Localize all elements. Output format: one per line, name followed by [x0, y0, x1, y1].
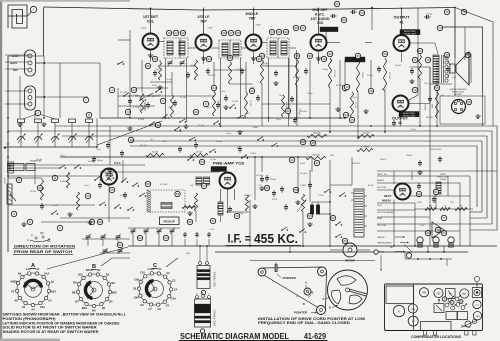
svg-text:.015μf: .015μf: [410, 129, 416, 131]
junction: [436, 125, 438, 127]
svg-text:28: 28: [236, 31, 240, 35]
svg-text:100,000: 100,000: [300, 111, 308, 113]
junction: [318, 8, 320, 10]
callout 10: [37, 185, 42, 190]
value label: [262, 65, 269, 67]
svg-text:250,000: 250,000: [208, 75, 216, 77]
label phono only preamp: [211, 167, 227, 172]
junction: [96, 146, 98, 148]
resistor: [356, 60, 359, 92]
switch lever: [51, 211, 58, 215]
svg-text:6,800: 6,800: [152, 85, 158, 87]
wire: [109, 126, 111, 165]
svg-text:A3A: A3A: [40, 305, 45, 309]
wire: [414, 203, 416, 246]
wire: [470, 217, 487, 219]
svg-text:70Ω: 70Ω: [432, 202, 436, 204]
wire: [311, 157, 313, 172]
value label: [381, 89, 387, 91]
svg-text:WHITE: WHITE: [406, 155, 413, 157]
svg-text:A.V.C.: A.V.C.: [315, 12, 325, 16]
svg-text:70,000: 70,000: [395, 65, 402, 67]
junction: [7, 164, 9, 166]
svg-text:A9: A9: [18, 272, 22, 276]
callout 45: [310, 140, 315, 145]
chassis callout i: [442, 297, 463, 305]
value label: [190, 185, 195, 187]
svg-text:22: 22: [146, 64, 150, 68]
tone cap: [280, 186, 284, 193]
callout 61: [117, 242, 122, 247]
callout 35: [294, 53, 299, 58]
svg-text:71: 71: [413, 58, 417, 62]
svg-text:.004μf: .004μf: [176, 131, 182, 133]
capacitor: [178, 146, 182, 153]
wire: [43, 56, 45, 118]
svg-text:39: 39: [286, 109, 290, 113]
wire: [145, 171, 219, 173]
wire: [122, 160, 124, 182]
junction: [329, 213, 331, 215]
svg-text:100μμf: 100μμf: [322, 69, 329, 71]
wire: [470, 223, 492, 225]
callout 29: [227, 55, 232, 60]
junction: [7, 175, 9, 177]
callout 57: [201, 183, 206, 188]
bus line B7: [60, 156, 312, 158]
svg-text:FROM REAR OF SWITCH: FROM REAR OF SWITCH: [14, 250, 73, 254]
wire: [351, 157, 353, 185]
junction: [427, 251, 429, 253]
wire: [253, 51, 255, 65]
value label: [226, 133, 231, 135]
electrolytic caps left: [3, 162, 14, 184]
compensator locations caption: [411, 335, 461, 339]
value label: [236, 69, 243, 71]
svg-text:98: 98: [467, 100, 471, 104]
ground: [157, 85, 162, 90]
resistor 680,000: [307, 132, 327, 137]
svg-text:79: 79: [436, 228, 440, 232]
value label: [221, 91, 226, 93]
callout 93: [425, 230, 430, 235]
svg-text:.0007: .0007: [279, 95, 285, 97]
svg-text:470,000: 470,000: [333, 70, 335, 78]
junction: [227, 211, 229, 213]
svg-text:B3: B3: [112, 281, 116, 285]
chassis rect B: [458, 312, 468, 320]
svg-text:B4: B4: [109, 300, 113, 304]
resistor: [281, 95, 284, 117]
value label: [285, 102, 287, 110]
chassis legs: [424, 331, 477, 336]
svg-text:14,000: 14,000: [232, 101, 239, 103]
wire: [8, 204, 95, 206]
junction: [253, 9, 255, 11]
svg-text:70,000: 70,000: [236, 69, 243, 71]
svg-text:C9: C9: [133, 287, 137, 291]
label audio freq phono only V5: [400, 30, 420, 36]
capacitor: [290, 96, 294, 103]
svg-text:26: 26: [222, 31, 226, 35]
coil wires: [200, 246, 207, 258]
chassis tube 7B7b: [460, 289, 469, 298]
svg-text:ANT. TRANS.: ANT. TRANS.: [213, 271, 217, 287]
svg-text:RED: RED: [330, 155, 335, 157]
wire: [365, 42, 372, 44]
capacitor: [272, 190, 276, 197]
value label: [150, 139, 154, 141]
value label: [263, 63, 270, 65]
resistor 250,000: [358, 132, 374, 137]
wire: [443, 246, 445, 252]
svg-text:180,000: 180,000: [256, 175, 264, 177]
resistor: [140, 93, 145, 113]
svg-text:330μμf: 330μμf: [97, 160, 103, 162]
bus line B5: [130, 141, 482, 212]
svg-text:B3A: B3A: [112, 291, 117, 295]
junction: [357, 137, 359, 139]
switch lever: [123, 93, 130, 97]
capacitor: [446, 66, 450, 73]
svg-text:RECT: RECT: [384, 194, 392, 198]
switch lever: [209, 149, 216, 153]
svg-text:YELLOW: YELLOW: [377, 187, 386, 189]
wire: [357, 92, 359, 138]
switch wafer B: [72, 264, 117, 312]
wire: [254, 157, 256, 200]
ground: [295, 200, 300, 205]
value label: [146, 157, 153, 159]
osc cluster wires: [100, 63, 168, 118]
svg-text:POINTER: POINTER: [294, 311, 308, 315]
svg-text:A6: A6: [14, 299, 18, 303]
wire: [289, 47, 296, 49]
svg-text:470,000: 470,000: [285, 102, 287, 110]
svg-text:20: 20: [153, 57, 157, 61]
svg-text:15,000: 15,000: [166, 79, 173, 81]
resistor 250,000: [306, 154, 326, 159]
wire: [436, 60, 438, 92]
svg-text:B2: B2: [106, 273, 110, 277]
connector socket P2: [5, 86, 36, 110]
cam labels: [323, 297, 339, 310]
trimmer row left A: [82, 234, 130, 246]
wire lamp: [404, 244, 412, 252]
value label: [452, 77, 456, 79]
callout 74: [437, 25, 442, 30]
svg-text:91: 91: [434, 190, 438, 194]
ground: [21, 222, 26, 227]
svg-text:O.S.C.: O.S.C.: [114, 162, 122, 165]
svg-text:2ND I.F.: 2ND I.F.: [245, 12, 258, 16]
svg-text:15: 15: [110, 188, 114, 192]
svg-text:B: B: [329, 306, 331, 310]
svg-text:2ND DET: 2ND DET: [312, 8, 328, 12]
svg-text:7B6: 7B6: [422, 293, 427, 295]
svg-text:RED: RED: [186, 253, 191, 255]
junction: [414, 245, 416, 247]
resistor 75: [455, 205, 467, 210]
resistor: [158, 62, 161, 80]
svg-text:A5: A5: [22, 305, 26, 309]
wire h1: [160, 65, 196, 67]
svg-text:FREQUENCY END OF DIAL. G: FREQUENCY END OF DIAL. GANG CLOSED: [258, 321, 351, 325]
pulley idler: [304, 288, 311, 295]
resistor: [40, 180, 43, 200]
wire: [470, 211, 482, 213]
chassis bottom rect: [421, 322, 452, 331]
wire: [159, 60, 161, 62]
IF transformer Z1: [164, 38, 188, 58]
callout 54: [175, 159, 205, 196]
ground: [251, 56, 256, 61]
svg-text:250,000: 250,000: [120, 92, 128, 94]
svg-text:C: C: [297, 294, 299, 298]
left bus vertical: [7, 56, 9, 252]
wire: [227, 189, 229, 213]
svg-text:500,000: 500,000: [244, 195, 252, 197]
wire: [344, 60, 346, 92]
wire: [377, 230, 460, 232]
note switches line2: [3, 317, 56, 321]
wire: [141, 60, 143, 92]
callout 48: [368, 88, 373, 93]
callout 14b: [41, 219, 95, 224]
svg-text:2 MEG: 2 MEG: [60, 181, 67, 183]
wire V4 plate: [318, 8, 320, 35]
svg-text:C3: C3: [172, 278, 176, 282]
svg-text:B5: B5: [102, 306, 106, 310]
scan edge bottom-left: [0, 339, 60, 341]
wire: [482, 93, 484, 126]
wire: [241, 47, 246, 49]
svg-text:POSITION (PHONOGRAPH): POSITION (PHONOGRAPH): [3, 317, 56, 321]
wire: [8, 164, 145, 166]
ground: [273, 81, 278, 86]
svg-text:PHONO ONLY: PHONO ONLY: [404, 33, 417, 35]
callout 13: [128, 137, 133, 142]
callout 76: [444, 9, 449, 14]
svg-text:BLUE: BLUE: [368, 185, 374, 187]
switch lever: [121, 178, 128, 183]
svg-text:10: 10: [38, 186, 42, 190]
tuning gang trimmers: [18, 119, 93, 147]
callout 90: [249, 88, 254, 93]
callout 30: [259, 53, 264, 58]
wire V5 plate: [401, 8, 403, 36]
drive cord right: [326, 272, 327, 311]
wire: [329, 88, 331, 132]
svg-text:.09μf: .09μf: [168, 107, 173, 109]
wire: [41, 178, 43, 180]
svg-text:10,000: 10,000: [196, 151, 203, 153]
wire h4: [135, 95, 215, 97]
wire: [325, 30, 327, 43]
svg-text:250,000: 250,000: [362, 132, 370, 134]
rotation arrow sketch: [27, 231, 51, 243]
svg-text:62: 62: [138, 236, 142, 240]
callouts near Z3: [269, 29, 288, 34]
svg-text:A7: A7: [11, 289, 15, 293]
svg-text:41-629: 41-629: [304, 332, 327, 341]
wire top-right bend: [454, 8, 456, 59]
junction: [7, 156, 9, 158]
junction: [297, 156, 299, 158]
wire IFT lead: [240, 58, 242, 118]
svg-text:210V: 210V: [207, 28, 213, 30]
svg-text:2.2 MEG: 2.2 MEG: [133, 107, 141, 109]
svg-text:I.F. =: I.F. =: [228, 234, 252, 246]
svg-text:BLACK-RED: BLACK-RED: [430, 148, 442, 151]
bus low 1: [128, 245, 497, 247]
resistor: [228, 62, 231, 84]
svg-text:10μf: 10μf: [452, 77, 456, 79]
svg-text:.09μf: .09μf: [226, 133, 231, 135]
value label: [450, 202, 454, 204]
callout 60: [97, 219, 102, 224]
svg-text:47: 47: [315, 161, 319, 165]
svg-text:72: 72: [413, 88, 417, 92]
value label: [168, 107, 173, 109]
svg-text:680,000: 680,000: [313, 132, 321, 134]
wire: [100, 171, 145, 173]
pickup shield hatch: [147, 191, 151, 213]
chassis tube 7B6: [419, 288, 428, 297]
value label: [162, 141, 167, 143]
switch lever: [174, 127, 181, 131]
wire v6 grid: [409, 8, 418, 101]
junction: [217, 206, 219, 208]
svg-text:1800Ω: 1800Ω: [440, 179, 446, 181]
svg-text:.006μf: .006μf: [238, 213, 244, 215]
svg-text:C8: C8: [140, 303, 144, 307]
resistor: [170, 95, 173, 117]
value label: [367, 75, 374, 77]
value label: [60, 181, 67, 183]
wire speaker: [448, 60, 450, 78]
wire: [329, 160, 331, 180]
wire: [436, 90, 438, 126]
svg-text:POINTER: POINTER: [283, 276, 297, 280]
junction: [370, 125, 372, 127]
note direction of rotation: [13, 245, 76, 255]
value label: [246, 113, 251, 115]
svg-text:45: 45: [311, 141, 315, 145]
value label: [198, 125, 205, 127]
svg-text:1ST DET: 1ST DET: [143, 15, 159, 19]
svg-text:A1: A1: [36, 267, 40, 271]
callouts near V4: [293, 25, 305, 30]
junction: [7, 117, 9, 119]
junction: [371, 7, 373, 9]
junction: [401, 7, 403, 9]
socket circle: [452, 100, 466, 114]
wire: [19, 76, 21, 118]
wire antenna to bus: [16, 14, 18, 16]
svg-text:50,000: 50,000: [146, 157, 153, 159]
wire: [289, 246, 291, 252]
wire: [277, 38, 279, 58]
resistor: [194, 60, 197, 80]
svg-text:.05μf: .05μf: [276, 119, 281, 121]
wire: [377, 182, 460, 184]
oscillator transformer: [195, 293, 217, 334]
switch lever: [324, 189, 331, 193]
svg-text:41: 41: [398, 121, 402, 125]
label black vert: [424, 103, 427, 110]
svg-text:52: 52: [418, 49, 422, 53]
svg-text:470,000: 470,000: [160, 184, 168, 186]
svg-text:51,000: 51,000: [180, 97, 187, 99]
svg-text:94: 94: [442, 231, 446, 235]
switch lever: [147, 93, 154, 97]
switch lever: [241, 155, 248, 159]
value label: [368, 185, 374, 187]
switch lever: [107, 175, 114, 179]
callout 24: [211, 85, 216, 90]
svg-text:C8A: C8A: [134, 296, 139, 300]
svg-text:12: 12: [86, 194, 90, 198]
capacitor: [98, 182, 102, 189]
svg-text:.01μf: .01μf: [352, 97, 357, 99]
wire: [262, 42, 268, 44]
callout 9: [16, 177, 21, 182]
ground: [127, 126, 132, 131]
callout 44: [342, 85, 347, 90]
callout 94: [441, 230, 446, 235]
callout 59: [307, 213, 312, 218]
wire: [261, 157, 263, 172]
svg-text:A2A: A2A: [51, 290, 56, 294]
wire: [370, 60, 372, 94]
wire: [296, 50, 298, 118]
junction: [344, 117, 346, 119]
junction: [339, 117, 341, 119]
label red vert: [432, 103, 434, 108]
value label: [430, 148, 442, 151]
padder caps 2: [183, 232, 210, 246]
junction: [289, 251, 291, 253]
callout 31: [256, 56, 261, 61]
svg-text:C5: C5: [166, 303, 170, 307]
svg-text:100 μf: 100 μf: [270, 179, 277, 181]
svg-text:B1: B1: [97, 268, 101, 272]
bus line B4: [62, 136, 487, 218]
svg-text:22,000: 22,000: [249, 100, 251, 107]
value label: [279, 95, 285, 97]
svg-text:24: 24: [212, 86, 216, 90]
svg-text:18: 18: [167, 31, 171, 35]
ground: [201, 56, 206, 61]
wire: [318, 51, 320, 65]
wire: [60, 217, 130, 219]
callout 40: [327, 51, 332, 56]
wire: [179, 38, 181, 58]
capacitor: [106, 142, 110, 149]
switch lever: [179, 119, 186, 123]
wire IFT lead: [220, 58, 222, 126]
install note line2: [258, 321, 351, 325]
wire: [8, 167, 60, 169]
note switches line4: [3, 326, 98, 330]
callout 4: [11, 211, 16, 216]
arrow into socket: [36, 62, 100, 65]
callout 5: [160, 98, 165, 103]
svg-text:-1.25V: -1.25V: [140, 28, 147, 30]
chassis circle 7T1: [473, 300, 481, 308]
separator line: [250, 260, 375, 262]
